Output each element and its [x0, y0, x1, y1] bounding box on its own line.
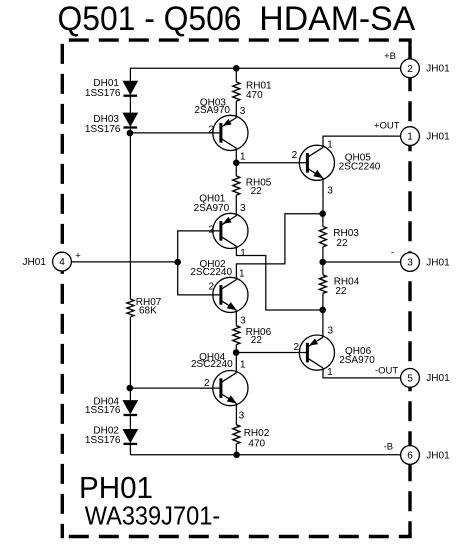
- junction left column / QH04 base: [127, 385, 134, 392]
- wire QH02 collector to node R7: [236, 214, 323, 280]
- junction DH03 cathode / QH03 base: [127, 130, 134, 137]
- transistor QH01 2SA970: [213, 213, 248, 248]
- module border top: [69, 38, 412, 41]
- wire RH02 to bottom rail: [235, 444, 237, 455]
- svg-text:3: 3: [240, 315, 246, 326]
- svg-text:2: 2: [407, 64, 413, 75]
- svg-text:2SA970: 2SA970: [194, 105, 230, 116]
- svg-text:1SS176: 1SS176: [85, 405, 121, 416]
- svg-text:2SA970: 2SA970: [339, 355, 375, 366]
- connector JH01 pin 3 (-): [401, 253, 420, 272]
- resistor RH06 22: [233, 326, 240, 345]
- svg-text:2: 2: [208, 281, 214, 292]
- resistor RH07 68K: [127, 299, 134, 317]
- junction RH02 / bottom rail: [233, 452, 240, 459]
- svg-text:2: 2: [292, 150, 298, 161]
- wire DH04 cathode to DH02 anode: [129, 415, 131, 429]
- svg-text:1: 1: [239, 268, 245, 279]
- wire node D4 to DH04 anode: [129, 388, 131, 400]
- wire QH06 emitter to JH01-5: [323, 369, 401, 378]
- wire QH03 base: [130, 132, 221, 134]
- wire DH02 cathode to bottom rail: [129, 444, 131, 455]
- svg-text:RH02: RH02: [244, 428, 270, 439]
- wire node R8 to JH01-3: [323, 261, 401, 263]
- svg-text:1: 1: [240, 248, 246, 259]
- svg-text:1: 1: [240, 360, 246, 371]
- svg-text:+OUT: +OUT: [374, 121, 400, 132]
- svg-text:2SC2240: 2SC2240: [191, 359, 233, 370]
- junction RH03 / RH04 / JH01-3: [319, 259, 326, 266]
- wire RH05 to QH01 collector: [235, 195, 237, 216]
- resistor RH01 470: [233, 82, 240, 101]
- svg-text:+: +: [75, 250, 81, 261]
- svg-text:1SS176: 1SS176: [85, 124, 121, 135]
- diode DH01 1SS176: [122, 81, 138, 95]
- transistor QH02 2SC2240: [213, 277, 248, 312]
- svg-text:2SC2240: 2SC2240: [190, 267, 232, 278]
- wire node R8 to RH04: [322, 262, 324, 275]
- wire RH07 to node D4: [129, 317, 131, 388]
- svg-text:JH01: JH01: [23, 257, 47, 268]
- wire QH02 emitter to RH06: [235, 310, 237, 325]
- wire QH03 emitter to node E3: [235, 149, 237, 163]
- svg-text:22: 22: [336, 238, 348, 249]
- diode DH04 1SS176: [122, 400, 138, 414]
- wire RH06 to node B6: [235, 345, 237, 353]
- wire input node to QH02 base: [178, 262, 221, 295]
- svg-text:3: 3: [240, 203, 246, 214]
- svg-text:22: 22: [251, 186, 263, 197]
- wire QH05 emitter to node R7: [322, 178, 324, 214]
- resistor RH02 470: [233, 425, 240, 444]
- wire RH01 to QH03 collector: [235, 101, 237, 117]
- svg-text:HDAM-SA: HDAM-SA: [259, 0, 415, 38]
- wire node E3 to QH05 base: [236, 162, 307, 164]
- svg-text:68K: 68K: [139, 306, 157, 317]
- diode DH02 1SS176: [122, 429, 138, 443]
- wire QH06 base: [236, 352, 307, 354]
- resistor RH04 22: [319, 275, 326, 293]
- wire node R9 to QH06 collector: [322, 310, 324, 337]
- svg-text:470: 470: [246, 90, 263, 101]
- svg-text:2: 2: [208, 224, 214, 235]
- svg-text:2: 2: [204, 378, 210, 389]
- svg-text:6: 6: [407, 451, 413, 462]
- junction QH03 emitter / RH05 / QH05 base: [233, 160, 240, 167]
- wire DH01 cathode to DH03 anode: [129, 96, 131, 113]
- svg-text:-: -: [391, 247, 394, 258]
- svg-text:WA339J701-: WA339J701-: [85, 501, 221, 531]
- connector JH01 pin 4 (+ input): [53, 252, 72, 271]
- svg-text:Q501 - Q506: Q501 - Q506: [58, 0, 242, 38]
- svg-text:3: 3: [327, 186, 333, 197]
- svg-text:1: 1: [240, 151, 246, 162]
- connector JH01 pin 1 (+OUT): [401, 127, 420, 146]
- wire QH05 collector to JH01-1: [323, 136, 401, 147]
- wire node R7 to RH03: [322, 214, 324, 227]
- svg-text:JH01: JH01: [426, 132, 450, 143]
- transistor QH06 2SA970: [299, 335, 334, 370]
- svg-text:1SS176: 1SS176: [85, 435, 121, 446]
- svg-text:2: 2: [294, 342, 300, 353]
- svg-text:3: 3: [407, 258, 413, 269]
- svg-text:1: 1: [327, 367, 333, 378]
- svg-text:JH01: JH01: [426, 257, 450, 268]
- connector JH01 pin 2 (+B): [401, 59, 420, 78]
- junction RH04 / QH06 collector / QH01 emitter: [319, 307, 326, 314]
- wire RH04 to node R9: [322, 293, 324, 310]
- svg-text:3: 3: [240, 106, 246, 117]
- connector JH01 pin 6 (-B): [401, 446, 420, 465]
- module border left: [61, 44, 64, 538]
- svg-text:3: 3: [239, 411, 245, 422]
- svg-text:-OUT: -OUT: [375, 365, 398, 376]
- svg-text:1: 1: [407, 132, 413, 143]
- wire rail to RH01: [235, 68, 237, 82]
- junction RH06 / QH04 collector / QH06 base: [233, 349, 240, 356]
- resistor RH03 22: [319, 226, 326, 247]
- diode DH03 1SS176: [122, 113, 138, 127]
- wire input from JH01-4: [71, 261, 177, 263]
- module border right: [408, 41, 411, 536]
- junction input / QH01 base / QH02 base: [174, 259, 181, 266]
- resistor RH05 22: [233, 176, 240, 195]
- wire node E3 to RH05: [235, 163, 237, 176]
- svg-text:+B: +B: [384, 51, 396, 62]
- svg-text:JH01: JH01: [426, 64, 450, 75]
- svg-text:1: 1: [327, 140, 333, 151]
- svg-text:-B: -B: [384, 442, 394, 453]
- wire +B top rail: [130, 67, 400, 69]
- wire QH04 base: [130, 387, 221, 389]
- wire node B6 to QH04 collector: [235, 353, 237, 371]
- svg-text:2: 2: [208, 124, 214, 135]
- wire -B bottom rail: [130, 454, 400, 456]
- svg-text:JH01: JH01: [426, 373, 450, 384]
- wire RH03 to node R8: [322, 247, 324, 262]
- wire top rail to DH01 anode: [129, 68, 131, 81]
- svg-text:22: 22: [251, 335, 263, 346]
- svg-text:1SS176: 1SS176: [85, 88, 121, 99]
- junction top rail / RH01: [233, 65, 240, 72]
- connector JH01 pin 5 (-OUT): [401, 369, 420, 388]
- svg-text:4: 4: [59, 257, 65, 268]
- module border bottom: [69, 535, 412, 538]
- wire QH01 emitter to node R9: [236, 246, 323, 310]
- svg-text:5: 5: [407, 374, 413, 385]
- svg-text:2SA970: 2SA970: [194, 203, 230, 214]
- svg-text:2SC2240: 2SC2240: [339, 161, 381, 172]
- transistor QH04 2SC2240: [213, 371, 248, 406]
- svg-text:22: 22: [335, 286, 347, 297]
- wire QH04 emitter to RH02: [235, 404, 237, 425]
- svg-text:JH01: JH01: [426, 450, 450, 461]
- wire DH03 cathode to RH07: [129, 129, 131, 300]
- transistor QH05 2SC2240: [299, 145, 334, 180]
- svg-text:470: 470: [248, 439, 265, 450]
- transistor QH03 2SA970: [213, 115, 248, 150]
- svg-text:3: 3: [328, 326, 334, 337]
- wire input node to QH01 base: [178, 231, 221, 262]
- junction QH05 emitter / RH03 / QH02 collector: [319, 210, 326, 217]
